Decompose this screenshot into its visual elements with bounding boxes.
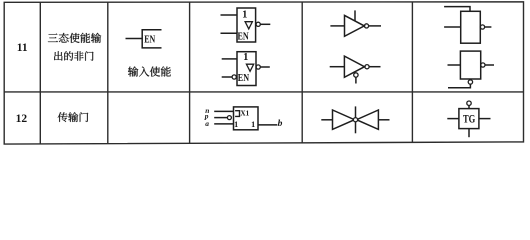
cell text: san tai shi neng shu (line 1) <box>48 33 101 43</box>
U6 enable bubble (bottom) <box>468 80 472 84</box>
svg-text:EN: EN <box>238 30 249 42</box>
wire: U4 input <box>330 66 345 68</box>
cell text: chu de fei men (line 2) <box>54 51 94 60</box>
cell text: shu ru shi neng <box>128 66 171 76</box>
cell text: chuan shu men <box>58 112 88 122</box>
wire: EN input lead <box>126 38 143 40</box>
wire: U6 output <box>485 64 494 66</box>
svg-text:EN: EN <box>144 33 155 45</box>
tri-state inverter U2 (active-low EN) <box>222 52 270 86</box>
tri-state inverter U3 (distinctive-shape, top enable) <box>330 10 381 36</box>
wire: U3 output <box>369 25 381 27</box>
svg-text:EN: EN <box>238 72 249 84</box>
wire: U6 enable (bottom L) <box>448 84 470 87</box>
U2 body <box>237 52 256 86</box>
U1 output bubble <box>256 22 260 26</box>
TG2 body <box>459 109 479 129</box>
svg-text:1: 1 <box>242 9 247 20</box>
X1 p-input bubble <box>227 116 231 120</box>
wire: output b <box>258 124 277 126</box>
TG1 center node circle <box>353 118 357 122</box>
tri-state inverter U4 (distinctive-shape, bottom active-low enable) <box>330 56 381 83</box>
U1 tri-state triangle <box>245 22 252 29</box>
wire: U2 enable input <box>222 76 232 78</box>
wire: TG1 gate line (vertical) <box>355 106 357 133</box>
wire: TG2 bottom lead <box>468 129 470 138</box>
svg-text:11: 11 <box>17 42 28 54</box>
wire: U1 output <box>260 23 270 25</box>
tri-state inverter U6 (rectangular, bottom active-low enable) <box>448 51 495 88</box>
U2 tri-state triangle <box>246 64 253 71</box>
U6 body <box>460 51 480 79</box>
wire: input a <box>214 123 233 125</box>
wire: input n <box>214 110 233 112</box>
wire: U5 enable (top L) <box>444 7 470 12</box>
wire: TG2 control stub <box>468 105 470 108</box>
svg-text:a: a <box>205 119 209 128</box>
wire: U2 data input <box>222 58 237 60</box>
svg-text:X1: X1 <box>240 109 249 117</box>
wire: U2 output <box>260 66 269 68</box>
wire: U5 input <box>444 26 461 28</box>
U6 output bubble <box>481 63 485 67</box>
svg-text:b: b <box>278 119 283 129</box>
EN enable-block outline (open right) <box>142 30 161 48</box>
U4 enable bubble <box>354 73 358 77</box>
svg-text:12: 12 <box>16 113 28 125</box>
U4 triangle body <box>344 56 364 77</box>
U2 output bubble <box>256 65 260 69</box>
U3 triangle body <box>345 15 365 36</box>
wire: TG2 right lead <box>479 118 491 120</box>
TG1 right triangle <box>357 110 379 129</box>
U5 output bubble <box>480 25 484 29</box>
TG1 left triangle <box>333 110 355 129</box>
wire: U1 enable input <box>221 32 238 34</box>
tri-state inverter U5 (rectangular, top enable) <box>444 7 491 44</box>
U5 body <box>461 11 481 43</box>
U1 body <box>237 8 256 42</box>
svg-text:1: 1 <box>234 120 238 129</box>
svg-text:1: 1 <box>251 120 255 129</box>
transmission gate TG2 (boxed TG) <box>447 101 490 137</box>
X1 qualifier bracket <box>235 111 239 117</box>
wire: U4 enable (bottom) <box>355 77 357 83</box>
transmission gate TG1 (two-triangle symbol) <box>321 106 389 133</box>
svg-text:TG: TG <box>463 113 475 125</box>
tri-state inverter U1 <box>221 8 271 42</box>
transmission gate X1 (IEC box) <box>214 107 277 130</box>
wire: U6 input <box>448 64 461 66</box>
table grid <box>4 2 523 144</box>
wire: TG1 right lead <box>378 119 389 121</box>
U4 output bubble <box>365 65 369 69</box>
wire: input p <box>214 117 227 119</box>
TG2 control bubble (top) <box>467 101 471 105</box>
U2 enable bubble <box>232 75 236 79</box>
U3 output bubble <box>364 24 368 28</box>
wire: U3 input <box>330 25 344 27</box>
X1 body <box>234 107 259 130</box>
svg-text:1: 1 <box>243 52 248 63</box>
wire: U5 output <box>485 26 492 28</box>
wire: TG2 left lead <box>447 118 459 120</box>
wire: U1 data input <box>221 14 238 16</box>
wire: TG1 left lead <box>321 119 332 121</box>
wire: U4 output <box>369 66 380 68</box>
wire: U3 enable (top) <box>354 10 356 21</box>
